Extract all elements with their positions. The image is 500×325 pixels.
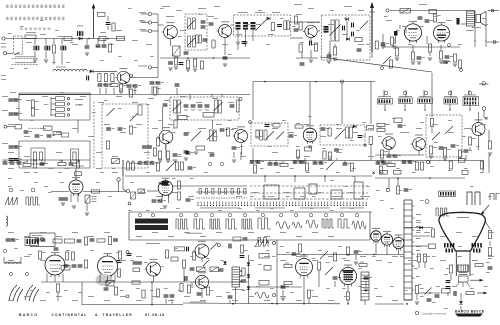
- resistor R91: [38, 251, 41, 259]
- socket J1: [2, 37, 5, 40]
- resistor R120: [423, 254, 426, 262]
- label: [344, 295, 350, 298]
- ground: [333, 58, 337, 60]
- svg-text:BARCO: BARCO: [19, 313, 38, 317]
- wire: [82, 304, 183, 306]
- label: [350, 139, 354, 142]
- transistor T513: [193, 241, 209, 258]
- resistor R66: [156, 163, 159, 171]
- potentiometer P12: [130, 113, 138, 121]
- capacitor C113: [113, 239, 118, 242]
- label: [280, 259, 286, 262]
- resistor R78: [480, 161, 483, 169]
- label: [96, 45, 100, 48]
- label: [250, 195, 254, 198]
- label: [136, 255, 142, 258]
- transistor T514: [193, 272, 208, 288]
- resistor R90: [108, 237, 111, 245]
- wire: [474, 40, 476, 47]
- wire: [320, 57, 432, 72]
- label: [470, 287, 474, 290]
- capacitor C57: [142, 146, 147, 149]
- resistor R46: [295, 123, 303, 128]
- label: [328, 299, 334, 302]
- label: [286, 251, 290, 254]
- wire: [344, 161, 346, 165]
- label: [72, 43, 78, 46]
- wire: [252, 82, 254, 121]
- wire: [4, 262, 21, 264]
- wire: [397, 178, 399, 186]
- resistor R69: [253, 165, 256, 173]
- resistor R103: [187, 285, 190, 293]
- wire: [277, 254, 404, 256]
- wire: [300, 161, 302, 165]
- capacitor C55: [184, 151, 189, 154]
- resistor R28: [31, 108, 38, 116]
- junction: [240, 270, 242, 272]
- osc coil pair: [284, 21, 290, 30]
- capacitor C1: [85, 46, 90, 49]
- socket J2: [3, 52, 6, 55]
- label: [486, 271, 490, 274]
- label: [15, 55, 35, 58]
- wire: [122, 160, 124, 176]
- capacitor C115: [72, 265, 77, 268]
- capacitor C35: [9, 146, 17, 149]
- label: [264, 299, 270, 302]
- capacitor C120: [127, 253, 132, 256]
- label: [364, 195, 370, 198]
- label: [60, 181, 64, 184]
- capacitor C101: [158, 200, 166, 203]
- resistor R118: [284, 281, 292, 284]
- resistor R60: [23, 162, 31, 167]
- capacitor C107: [35, 239, 40, 242]
- wire: [152, 67, 158, 69]
- capacitor C140: [454, 291, 457, 296]
- label: [88, 235, 94, 238]
- capacitor C33: [35, 135, 43, 138]
- ground: [281, 298, 285, 300]
- socket J17: [67, 114, 69, 116]
- resistor R113: [333, 253, 336, 261]
- junction: [276, 303, 278, 305]
- wire: [162, 107, 164, 130]
- label: [150, 55, 154, 58]
- label: [238, 207, 242, 210]
- wire: [257, 161, 259, 165]
- label: [358, 285, 362, 288]
- label: [416, 237, 421, 240]
- label: [96, 181, 100, 184]
- filter rect: [99, 36, 106, 40]
- junction: [347, 254, 349, 256]
- wire: [12, 64, 38, 66]
- capacitor C121: [133, 262, 138, 265]
- capacitor C54: [184, 133, 189, 136]
- label: [432, 301, 436, 304]
- label: [255, 11, 265, 14]
- resistor R32: [73, 152, 76, 160]
- label: [362, 121, 366, 124]
- label: [322, 147, 326, 150]
- bracket wave 1: [467, 192, 472, 205]
- label: [20, 25, 24, 28]
- label: [368, 155, 374, 158]
- label: [166, 15, 174, 18]
- wire: [468, 90, 470, 95]
- label: [336, 123, 340, 126]
- label: [344, 185, 348, 188]
- resistor R39: [156, 138, 159, 146]
- terminal box D: [331, 190, 342, 199]
- resistor R74: [387, 162, 395, 167]
- resistor R82: [396, 186, 399, 194]
- wire: [276, 240, 278, 300]
- wire: [53, 54, 55, 65]
- junction: [151, 304, 153, 306]
- test point: [3, 249, 6, 252]
- capacitor C73: [393, 155, 401, 158]
- resistor R107: [206, 287, 209, 295]
- label: [352, 175, 356, 178]
- label: [446, 31, 450, 34]
- capacitor C68: [301, 161, 306, 164]
- capacitor C49: [198, 105, 203, 108]
- label: [128, 7, 132, 10]
- label: [419, 95, 431, 98]
- socket J8: [386, 9, 389, 12]
- label: [416, 221, 421, 224]
- memo rect: [264, 266, 271, 271]
- wire: [211, 94, 213, 97]
- label: [176, 207, 180, 210]
- label: [220, 191, 226, 194]
- choke: [457, 18, 460, 25]
- label: [180, 95, 186, 98]
- label: [160, 207, 164, 210]
- label: [160, 265, 164, 268]
- capacitor C61: [220, 129, 228, 132]
- wire: [18, 160, 20, 162]
- label: [258, 9, 262, 12]
- wire: [54, 275, 56, 282]
- resistor R6: [212, 40, 215, 48]
- test point: [424, 91, 428, 95]
- test point: [448, 91, 452, 95]
- capacitor C7: [77, 31, 80, 36]
- label: [328, 23, 334, 26]
- potentiometer P15: [335, 129, 345, 139]
- wire: [53, 39, 55, 45]
- wire: [20, 257, 22, 263]
- capacitor C18: [351, 23, 354, 28]
- label: [8, 259, 14, 262]
- socket J13: [4, 125, 7, 128]
- label: [388, 261, 392, 264]
- diode D4: [345, 17, 348, 21]
- label: [328, 235, 334, 238]
- wire: [405, 29, 407, 33]
- capacitor C48: [191, 105, 196, 108]
- label: [184, 231, 190, 234]
- label: [368, 127, 374, 130]
- label: [470, 273, 474, 276]
- label: [406, 131, 410, 134]
- label: [256, 209, 260, 212]
- capacitor C103: [404, 189, 412, 192]
- label: [414, 267, 418, 270]
- label: [392, 255, 398, 258]
- wire: [485, 40, 487, 47]
- label: [336, 151, 342, 154]
- wire: [355, 255, 357, 260]
- test point: [25, 272, 28, 275]
- label: [432, 123, 438, 126]
- capacitor C7: [209, 23, 214, 26]
- wire: [45, 39, 47, 45]
- label: [168, 235, 174, 238]
- label: [248, 295, 254, 298]
- wire: [404, 104, 406, 109]
- svg-text:Copyright reserved: Copyright reserved: [422, 312, 447, 316]
- label: [276, 171, 280, 174]
- label: [104, 299, 110, 302]
- photo block 2: [135, 225, 168, 230]
- label: [146, 209, 150, 212]
- wire: [86, 39, 88, 46]
- socket J5: [148, 29, 151, 32]
- wire: [429, 52, 431, 56]
- label: [448, 169, 452, 172]
- wire: [34, 52, 36, 59]
- wire: [99, 275, 101, 283]
- label: [286, 195, 290, 198]
- label: [210, 289, 214, 292]
- waveform: [292, 222, 302, 228]
- 1000b: [462, 170, 468, 174]
- resistor R112: [317, 262, 320, 270]
- label: [118, 55, 122, 58]
- resistor R29: [53, 131, 61, 134]
- label: [338, 195, 342, 198]
- capacitor C12: [242, 41, 247, 44]
- label: [414, 259, 418, 262]
- resistor R24: [439, 51, 442, 59]
- dark anode: [159, 181, 169, 186]
- resistor R34: [119, 84, 126, 92]
- resistor R59: [458, 150, 465, 158]
- ground: [428, 58, 432, 60]
- wire: [276, 300, 278, 304]
- label: [116, 251, 120, 254]
- label: [248, 259, 254, 262]
- ground: [415, 302, 419, 304]
- capacitor C123: [190, 268, 195, 271]
- resistor R27: [31, 100, 38, 108]
- label box: [367, 126, 374, 131]
- resistor R57: [380, 150, 387, 158]
- label: [472, 26, 481, 29]
- label: [42, 95, 48, 98]
- capacitor C47: [184, 105, 189, 108]
- junction: [88, 38, 90, 40]
- label: [440, 235, 446, 238]
- label: [130, 259, 134, 262]
- label: [296, 299, 302, 302]
- test point: [279, 214, 282, 217]
- resistor R10: [200, 61, 203, 69]
- capacitor C133: [228, 296, 233, 299]
- label: [360, 299, 366, 302]
- label: [268, 195, 274, 198]
- relay contact: [56, 113, 65, 117]
- label: [78, 103, 82, 106]
- connector block 1: [378, 99, 393, 105]
- label: [40, 19, 44, 22]
- label: [206, 257, 210, 260]
- capacitor C11: [277, 24, 282, 27]
- label: [476, 145, 480, 148]
- capacitor C89: [299, 161, 307, 164]
- label: [24, 155, 30, 158]
- capacitor C44: [133, 85, 141, 88]
- wire: [160, 57, 250, 59]
- label: [412, 171, 416, 174]
- label: [228, 53, 232, 56]
- label: [300, 41, 304, 44]
- label: [386, 19, 392, 22]
- trap coil2: [178, 116, 187, 120]
- wire: [160, 94, 250, 96]
- label: [320, 167, 324, 170]
- capacitor C45: [150, 82, 158, 85]
- label: [296, 13, 302, 16]
- capacitor C43: [127, 85, 135, 88]
- socket J29: [126, 251, 129, 254]
- label: [130, 181, 134, 184]
- capacitor C10: [184, 52, 189, 55]
- wire: [157, 86, 159, 94]
- label: [416, 249, 421, 252]
- label: [72, 165, 84, 168]
- waveform: [176, 219, 189, 229]
- wire: [252, 148, 254, 160]
- waveform: [226, 219, 237, 229]
- gang cap stack 1: [236, 22, 241, 30]
- wire: [99, 88, 101, 94]
- label: [304, 155, 310, 158]
- waveform: [352, 221, 366, 229]
- label: [448, 119, 452, 122]
- label: [198, 13, 202, 16]
- label: [56, 131, 62, 134]
- test point: [9, 188, 13, 192]
- capacitor C90: [313, 162, 321, 165]
- wire: [132, 160, 134, 162]
- wire: [70, 160, 72, 162]
- socket J11: [493, 41, 496, 44]
- trap: [355, 38, 362, 42]
- label: [416, 213, 421, 216]
- label: [200, 127, 206, 130]
- label: [256, 129, 260, 132]
- label: [188, 195, 194, 198]
- label: [356, 29, 360, 32]
- label: [390, 207, 394, 210]
- resistor R87: [449, 265, 452, 273]
- wire: [304, 158, 306, 160]
- wire: [370, 144, 372, 160]
- resistor R13: [299, 22, 302, 30]
- potentiometer P18: [166, 163, 174, 171]
- wire: [296, 57, 318, 59]
- label: [260, 167, 264, 170]
- capacitor C84: [250, 161, 258, 164]
- L-BR rect2: [259, 281, 269, 286]
- wire: [418, 262, 420, 268]
- ground: [72, 206, 76, 208]
- label: [272, 11, 280, 14]
- label: [24, 135, 30, 138]
- tube EY51b: [393, 234, 404, 250]
- potentiometer P21: [203, 260, 209, 266]
- label: [184, 131, 190, 134]
- label: [400, 255, 404, 258]
- transistor T510: [411, 135, 426, 151]
- resistor R77: [449, 161, 452, 169]
- interbox rect: [15, 125, 22, 129]
- resistor R108: [142, 290, 145, 298]
- connector block 4: [444, 98, 458, 104]
- label: [296, 145, 300, 148]
- capacitor C27: [443, 61, 451, 64]
- wire: [301, 52, 303, 58]
- resistor R19: [428, 44, 431, 52]
- waveform sawtooth: [0, 0, 1, 1]
- test point: [243, 214, 246, 217]
- wire: [474, 11, 476, 43]
- coil L517: [25, 35, 36, 39]
- switch: [14, 52, 19, 55]
- label: [168, 123, 174, 126]
- label: [264, 235, 270, 238]
- waveform: [5, 197, 18, 205]
- capacitor C59: [173, 154, 181, 157]
- resistor R56: [377, 123, 385, 126]
- wire: [152, 22, 158, 24]
- capacitor C111: [77, 240, 82, 243]
- label: [480, 123, 486, 126]
- connector block 5: [463, 97, 479, 106]
- wire: [250, 175, 372, 177]
- label: [146, 242, 160, 245]
- sync rounded: [44, 126, 53, 130]
- resistor R83: [431, 229, 434, 237]
- coil: [260, 130, 268, 140]
- capacitor C116: [78, 265, 83, 268]
- waveform: [258, 218, 271, 229]
- label: [458, 245, 462, 248]
- label: [162, 5, 170, 8]
- resistor R76: [420, 162, 423, 170]
- test point: [309, 214, 312, 217]
- ground: [309, 60, 313, 62]
- resistor R98: [114, 287, 117, 295]
- label: [470, 185, 474, 188]
- tuned coil: [188, 36, 196, 47]
